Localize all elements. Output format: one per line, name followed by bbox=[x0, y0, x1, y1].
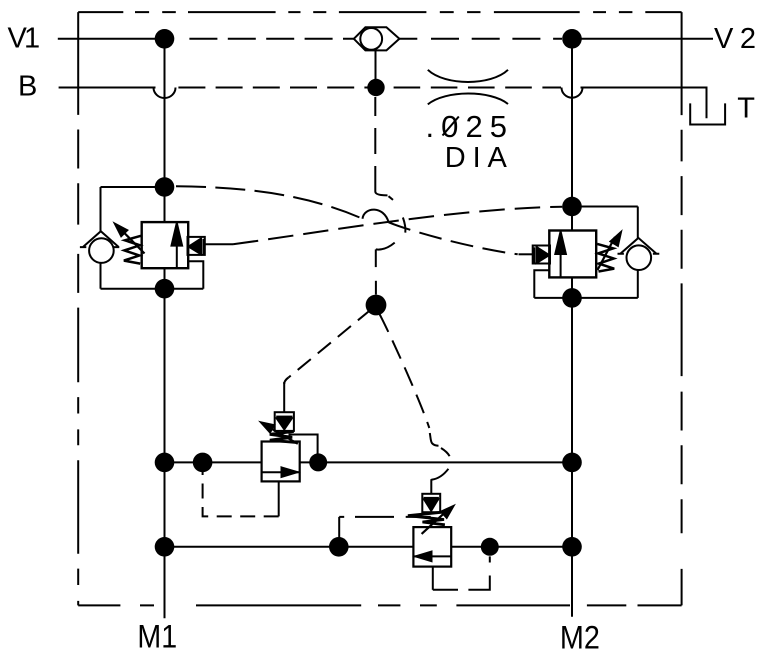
wire center pilot dash bbox=[389, 196, 394, 200]
wire RV1 bottom header bbox=[101, 288, 204, 290]
relief valve RV2 branch to check bbox=[572, 206, 638, 208]
relief valve RV2 internal flow arrow bbox=[560, 252, 562, 277]
sequence valve SV1 pilot head bbox=[275, 412, 294, 431]
check valve CV1 ball bbox=[360, 28, 382, 50]
sequence valve SV1 remote line to outlet bbox=[289, 435, 318, 463]
sequence valve SV2 remote sense line bbox=[338, 517, 340, 547]
sequence valve SV1 adjust arrow bbox=[266, 425, 298, 443]
pilot line LA continuation bbox=[389, 222, 518, 254]
node B-orifice bbox=[367, 79, 384, 96]
wire check valve down to B line bbox=[375, 50, 377, 87]
wire M2 vertical upper bbox=[571, 39, 573, 231]
wire center pilot vertical bbox=[375, 249, 377, 267]
svg-text:DIA: DIA bbox=[445, 142, 508, 174]
check valve CV1 stub right bbox=[398, 38, 417, 40]
svg-text:M2: M2 bbox=[560, 620, 600, 656]
relief valve RV1 internal flow arrow bbox=[176, 243, 178, 268]
sequence valve SV2 drain bbox=[432, 567, 434, 590]
node M1 row2 bbox=[155, 537, 175, 557]
tank symbol T bbox=[690, 103, 725, 124]
enclosure border right bbox=[681, 12, 683, 605]
relief valve RV1 drain bbox=[188, 261, 203, 288]
relief valve RV1 branch to check bbox=[101, 186, 165, 188]
node V1-M1 bbox=[155, 29, 175, 49]
pilot line LA left junction to RV2 pilot (dashed S) bbox=[176, 186, 363, 218]
node M2 row2 bbox=[562, 537, 582, 557]
wire center pilot hook bbox=[376, 243, 395, 250]
sequence valve SV1 internal arrow bbox=[262, 471, 300, 473]
relief valve RV1 body bbox=[142, 222, 189, 268]
node SV1 outlet bbox=[309, 453, 327, 471]
wire SV2 pilot hook and riser bbox=[431, 469, 448, 494]
enclosure border left bbox=[77, 12, 79, 605]
wire M1 vertical lower bbox=[164, 268, 166, 618]
pilot line LB RV1 pilot to right junction (dashed S) bbox=[233, 207, 562, 245]
wire center pilot crossing segment bbox=[403, 218, 406, 233]
pilot line LA jump arc bbox=[363, 210, 389, 223]
node RV2 bottom bbox=[562, 288, 582, 308]
check valve CV3 ball bbox=[627, 245, 652, 270]
wire RV2 bottom header bbox=[534, 297, 638, 299]
node SV2 drain return bbox=[481, 538, 499, 556]
node M2 row1 bbox=[562, 453, 582, 473]
sequence valve SV1 body bbox=[262, 442, 300, 482]
port line V1 bbox=[58, 38, 165, 40]
svg-text:T: T bbox=[737, 93, 755, 125]
wire center pilot dashed upper bbox=[374, 97, 376, 154]
relief valve RV1 adjust arrow bbox=[121, 230, 145, 254]
orifice lower curve bbox=[428, 94, 508, 105]
wire center pilot bend right bbox=[375, 166, 387, 195]
sequence valve SV1 spring bbox=[270, 432, 298, 443]
svg-text:B: B bbox=[18, 70, 37, 102]
wire crossover jump at M2 bbox=[562, 88, 583, 98]
wire SV1 pilot riser bbox=[283, 382, 285, 412]
enclosure border top bbox=[78, 11, 681, 13]
wire M2 vertical lower bbox=[571, 277, 573, 616]
work line row 1 bbox=[165, 461, 262, 463]
sequence valve SV2 spring bbox=[408, 512, 446, 525]
check valve CV1 hexagon body bbox=[354, 27, 400, 50]
sequence valve SV2 internal arrow bbox=[413, 555, 451, 557]
sequence valve SV2 body bbox=[413, 527, 451, 567]
check valve CV2 seat bbox=[83, 231, 118, 247]
port line B bbox=[59, 87, 156, 89]
wire SV2 pilot jog bbox=[430, 433, 439, 446]
pilot branch to sequence valve SV1 (dashed diagonal) bbox=[289, 310, 372, 378]
wire below CV3 bbox=[637, 270, 639, 298]
wire below CV2 bbox=[100, 263, 102, 289]
work line row 2 bbox=[165, 546, 414, 548]
wire crossover jump at M1 bbox=[154, 88, 176, 99]
check valve CV3 seat bbox=[621, 238, 657, 254]
node RV2 top bbox=[562, 197, 582, 217]
slash of zero in .025 bbox=[443, 117, 459, 136]
sequence valve SV2 adjust arrow bbox=[422, 510, 448, 534]
relief valve RV2 drain bbox=[534, 270, 549, 298]
relief valve RV2 body bbox=[549, 231, 596, 278]
check valve CV2 ball bbox=[89, 238, 114, 263]
node V2-M2 bbox=[562, 29, 582, 49]
wire M1 vertical upper bbox=[164, 39, 166, 222]
relief valve RV2 adjust arrow bbox=[598, 237, 616, 270]
wire B dashed through orifice bbox=[394, 87, 561, 89]
relief valve RV2 pilot box bbox=[533, 246, 550, 264]
node RV1 top bbox=[155, 177, 175, 197]
port line V2 bbox=[572, 38, 713, 40]
relief valve RV1 spring bbox=[124, 236, 141, 264]
wire V1 dashed to check valve bbox=[189, 38, 353, 40]
enclosure border bottom bbox=[78, 604, 681, 606]
relief valve RV1 pilot box bbox=[188, 237, 205, 255]
svg-text:V1: V1 bbox=[8, 23, 41, 55]
node SV1 drain return bbox=[193, 453, 213, 473]
wire B dashed to orifice node bbox=[178, 87, 368, 89]
node RV1 bottom bbox=[155, 279, 175, 299]
wire SV2 pilot dash above line bbox=[441, 448, 450, 456]
svg-text:M1: M1 bbox=[137, 619, 177, 655]
wire center pilot dash lower bbox=[375, 281, 377, 295]
wire check valve to V2 junction dashed bbox=[431, 38, 562, 40]
sequence valve SV2 pilot head bbox=[422, 494, 440, 512]
pilot branch to sequence valve SV2 (dashed diagonal) bbox=[380, 314, 430, 428]
node pilot split bbox=[366, 295, 387, 316]
relief valve RV1 pilot stub bbox=[205, 243, 233, 245]
wire SV1 pilot corner bbox=[284, 378, 288, 385]
relief valve RV2 pilot stub bbox=[519, 253, 533, 255]
node M1 row1 bbox=[155, 453, 175, 473]
relief valve RV2 spring bbox=[597, 244, 614, 272]
orifice upper curve bbox=[428, 70, 508, 82]
node SV2 remote bbox=[329, 537, 349, 557]
wire B to tank bbox=[581, 88, 707, 119]
sequence valve SV1 drain bbox=[278, 481, 280, 516]
